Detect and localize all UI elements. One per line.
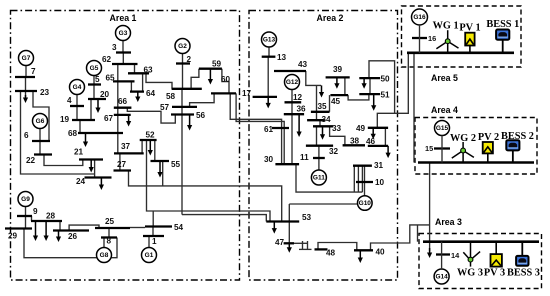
wire bus 31 tick a [353, 166, 355, 192]
load arrow bus 52 load [148, 140, 153, 156]
bus 19 [72, 119, 95, 121]
svg-text:17: 17 [242, 89, 252, 98]
wire spine bus 58 to junction 53 [181, 89, 183, 215]
bus 6 [32, 140, 50, 142]
svg-text:1: 1 [152, 237, 157, 246]
svg-text:G14: G14 [435, 274, 448, 281]
generator G9 [18, 192, 33, 207]
wire G14 stem [441, 242, 443, 269]
bus 61 [272, 127, 289, 129]
svg-text:BESS 3: BESS 3 [507, 268, 540, 279]
bus 27 [114, 169, 132, 171]
bus 13 [262, 56, 276, 58]
bus 49 [368, 127, 388, 129]
wire bus 23 to bus 24 long link [21, 91, 95, 174]
svg-text:59: 59 [212, 60, 222, 69]
bus 5 [88, 83, 101, 85]
bus 43 [274, 70, 306, 72]
bus 51 [359, 93, 380, 95]
wire bus 40 to Area 3 tie [371, 225, 430, 250]
bus 64 [130, 90, 144, 92]
bus 20 [88, 98, 106, 100]
svg-text:10: 10 [375, 178, 385, 187]
bus 63 [128, 72, 149, 74]
bus 3 [116, 51, 131, 53]
load arrow bus 28 load b [44, 221, 49, 241]
BESS unit BESS 3 [516, 242, 528, 266]
svg-text:15: 15 [425, 144, 433, 153]
bus 17 [253, 96, 277, 98]
bus 59 [199, 68, 222, 70]
bus 39 [326, 76, 350, 78]
generator G12 [285, 75, 300, 90]
svg-text:36: 36 [297, 105, 307, 114]
svg-text:45: 45 [331, 97, 341, 106]
generator G14 [434, 269, 449, 284]
wire G15 stem [441, 136, 443, 163]
svg-text:G13: G13 [263, 37, 276, 44]
svg-text:G9: G9 [21, 196, 30, 203]
bus 21 [79, 158, 103, 160]
wire bus 34 to bus 33 [319, 120, 321, 126]
load arrow bus 51 load [371, 94, 376, 111]
wire bus 49 to bus 46 [384, 128, 386, 146]
wire Area 4 to Area 3 tie [429, 163, 431, 252]
svg-text:40: 40 [376, 248, 386, 257]
bus 37 [114, 152, 144, 154]
wire bus 20 to bus 19 [90, 99, 92, 120]
wire bus 26 to bus 25 [69, 225, 99, 230]
bus 52 [140, 139, 157, 141]
wire bus 22 to bus 21 [44, 155, 83, 166]
load arrow bus 59 load [208, 69, 213, 85]
bus 29 [5, 227, 32, 229]
svg-text:43: 43 [298, 60, 308, 69]
area box Area 3 [419, 234, 542, 289]
generator G16 [412, 9, 428, 25]
wire G6 stem [39, 128, 41, 141]
svg-text:62: 62 [102, 55, 112, 64]
wire bus 52 to bus 55 tick [154, 140, 156, 161]
bus 16 [412, 37, 427, 39]
wire bus 3 to bus 62 [122, 53, 124, 65]
svg-text:Area 3: Area 3 [435, 217, 462, 227]
svg-text:57: 57 [160, 103, 170, 112]
wire bus 25 to bus 8 [108, 228, 110, 238]
Area 4 main bus [418, 161, 534, 164]
bus 2 [176, 62, 190, 64]
load arrow bus 26 load [56, 231, 61, 243]
PV unit PV 2 [483, 142, 493, 163]
Area 3 main bus [423, 240, 539, 243]
svg-text:61: 61 [264, 125, 274, 134]
svg-text:51: 51 [381, 91, 391, 100]
bus 26 [53, 229, 89, 231]
svg-text:54: 54 [174, 223, 184, 232]
wire bus 50 to bus 51 [369, 78, 371, 94]
wire bus 65 to bus 64 [130, 81, 132, 91]
bus 14 [436, 253, 450, 255]
wire bus 31 tick b [357, 166, 359, 192]
svg-text:46: 46 [366, 137, 376, 146]
svg-text:2: 2 [187, 55, 192, 64]
bus 11 [313, 157, 325, 159]
wind turbine WG 1 [436, 30, 458, 53]
wire stub bar between ticks and bus 48 [299, 248, 312, 250]
wire G7 stem to bus 7 [25, 65, 27, 77]
wire bus 21 to bus 24 [94, 160, 96, 178]
svg-text:G8: G8 [100, 252, 109, 259]
bus 58 [172, 88, 202, 90]
load arrow bus 68 load [83, 133, 88, 147]
generator G15 [435, 121, 450, 136]
load arrow bus 64 load [135, 92, 140, 102]
bus 57 [172, 106, 197, 108]
svg-text:G3: G3 [119, 30, 128, 37]
bus 22 [34, 153, 52, 155]
wire bus 23 to bus 6 [33, 91, 49, 141]
wire bus 52 to bus 37 tick [141, 140, 143, 153]
wire bus 31 to bus 10 to G10 [364, 166, 366, 196]
wire bus 33 to bus 38 [330, 126, 345, 145]
load arrow bus 33 load [320, 126, 325, 140]
svg-text:63: 63 [144, 66, 154, 75]
load arrow Area 3 tie load [427, 248, 432, 258]
wire G9 stem through bus 9 [25, 206, 27, 229]
wire G1 stem [148, 236, 150, 248]
bus 30 [275, 163, 299, 165]
svg-text:28: 28 [46, 212, 56, 221]
svg-text:14: 14 [451, 251, 460, 260]
load arrow bus 55 load [157, 161, 162, 178]
wire bus 52 to bus 53 link [147, 140, 271, 222]
bus 68 [78, 132, 123, 134]
svg-text:13: 13 [277, 53, 287, 62]
bus 9 [17, 215, 32, 217]
bus 55 [151, 160, 170, 162]
svg-text:35: 35 [318, 102, 328, 111]
bus 12 [285, 101, 302, 103]
bus 66 [114, 107, 132, 109]
bus 50 [359, 77, 380, 79]
svg-text:G16: G16 [413, 14, 426, 21]
wire bus 2 to bus 58 [182, 64, 184, 89]
wire bus 43 step to bus 35 [306, 71, 321, 85]
svg-text:25: 25 [105, 217, 115, 226]
svg-text:30: 30 [264, 155, 274, 164]
bus 32 [306, 145, 333, 147]
wire bus 7 to load below bus 23 [25, 77, 27, 98]
wire Area 5 to Area 4 tie [413, 53, 415, 163]
wire bus 31 tick c [361, 166, 363, 192]
wire junction to bus 53 lower link [182, 215, 266, 222]
wire bus 43 branch to bus 35 [316, 85, 318, 111]
wire bus 37 to bus 27 [119, 153, 121, 170]
wire bus 60 to bus 61 to bus 30 line a [230, 93, 281, 164]
svg-text:11: 11 [300, 153, 309, 162]
bus 48 [315, 248, 328, 250]
generator G8 [97, 248, 112, 263]
wire bus 54 riser [152, 211, 154, 227]
bus 45 [330, 94, 348, 96]
load arrow bus 20 load [95, 99, 100, 113]
load arrow bus 24 load [99, 178, 104, 191]
wire bus 35 to bus 34 [316, 112, 318, 120]
svg-text:21: 21 [74, 148, 84, 157]
bus 54 [145, 225, 172, 227]
load arrow bus 36 load [297, 114, 302, 137]
svg-text:22: 22 [26, 156, 36, 165]
wire bus 62 to bus 63 [134, 64, 136, 73]
generator G2 [175, 39, 190, 54]
wire bus 49 to Area 5 tie [377, 53, 408, 128]
svg-text:55: 55 [171, 160, 181, 169]
wire bus 45 to bus 35 [329, 95, 331, 112]
generator G5 [87, 61, 102, 76]
wire bus 9 to bus 28 [31, 216, 33, 221]
bus 35 [311, 111, 330, 113]
bus 60 [211, 92, 236, 94]
svg-text:34: 34 [322, 115, 332, 124]
load arrow bus 43 branch load [319, 85, 324, 97]
svg-text:68: 68 [68, 129, 78, 138]
load arrow bus 17 load [266, 98, 271, 108]
svg-text:58: 58 [166, 92, 176, 101]
svg-text:PV 3: PV 3 [484, 268, 505, 279]
BESS unit BESS 2 [506, 140, 519, 162]
wire bus 25 to bus 54 [130, 227, 145, 229]
wire bus 45 to bus 51 [348, 94, 369, 100]
bus 34 [307, 119, 325, 121]
area box Area 2 [249, 11, 398, 281]
svg-text:Area 4: Area 4 [431, 105, 458, 115]
svg-text:26: 26 [68, 232, 78, 241]
svg-text:G4: G4 [73, 84, 82, 91]
wire bus 55 down link [162, 161, 164, 186]
bus 38 [343, 144, 365, 146]
svg-text:24: 24 [76, 177, 86, 186]
bus 36 [284, 113, 304, 115]
bus 4 [70, 105, 84, 107]
wind turbine WG 2 [452, 142, 474, 163]
bus 8 [101, 236, 117, 238]
wire bus 54 to bus 1 [152, 227, 154, 237]
svg-text:64: 64 [146, 89, 156, 98]
PV unit PV 1 [465, 33, 474, 53]
svg-text:60: 60 [221, 75, 231, 84]
svg-text:50: 50 [381, 75, 391, 84]
svg-text:27: 27 [117, 160, 127, 169]
load arrow bus 49 load [371, 128, 376, 139]
wire G2 stem [182, 53, 184, 64]
bus 25 [95, 227, 130, 229]
wire bus 59 to bus 58 [191, 69, 199, 89]
svg-text:48: 48 [326, 249, 336, 258]
generator G6 [33, 114, 48, 129]
wire bus 57 to bus 60 [190, 93, 215, 107]
svg-text:29: 29 [8, 232, 18, 241]
svg-text:G1: G1 [145, 252, 154, 259]
wire bus 53 to G10 link [289, 203, 358, 205]
wire bus 5 to bus 20 [93, 85, 95, 100]
wire G16 stem [419, 25, 421, 53]
svg-text:38: 38 [350, 137, 360, 146]
bus 46 [368, 145, 388, 147]
svg-text:49: 49 [356, 124, 366, 133]
load arrow bus 53 load [272, 222, 277, 234]
wire bus 47 to bus 48 [294, 242, 308, 244]
svg-text:31: 31 [374, 161, 384, 170]
bus 31 [353, 165, 372, 167]
bus 15 [434, 147, 450, 149]
svg-text:65: 65 [106, 74, 116, 83]
svg-text:G15: G15 [436, 125, 449, 132]
area box Area 4 [415, 118, 537, 175]
wire bus 39 to bus 45 [344, 77, 346, 95]
wire bus 32 to bus 11 [318, 146, 320, 158]
generator G4 [70, 80, 85, 95]
load arrow bus 46 load [386, 146, 391, 158]
svg-text:66: 66 [118, 97, 128, 106]
svg-text:67: 67 [104, 114, 114, 123]
svg-text:9: 9 [33, 207, 38, 216]
generator G11 [311, 170, 326, 185]
svg-text:Area 5: Area 5 [431, 73, 458, 83]
svg-text:52: 52 [146, 131, 156, 140]
svg-text:WG 1: WG 1 [433, 21, 459, 32]
wire bus 63 to bus 58 [146, 73, 172, 89]
bus 56 [171, 113, 194, 115]
load arrow bus 50 load [362, 78, 367, 89]
wire bus 50 to Area 5 tie [369, 61, 395, 114]
svg-text:20: 20 [100, 90, 110, 99]
load arrow bus 39 load [334, 77, 339, 88]
wire spine bus 62 to bus 37 [117, 64, 119, 153]
wire G11 stem [318, 158, 320, 171]
bus 7 [15, 76, 35, 78]
wire bus 6 to bus 22 [39, 141, 41, 155]
load arrow bus 21 load [89, 160, 94, 173]
bus 10 [356, 181, 373, 183]
load arrow bus 47 load [287, 244, 292, 253]
wire parallel tick a between 47 and 48 [302, 241, 304, 249]
wire bus 30 to bus 31 lower link [296, 164, 362, 192]
svg-text:39: 39 [333, 65, 343, 74]
bus 67 [114, 114, 131, 116]
bus 40 [354, 249, 373, 251]
svg-text:32: 32 [329, 147, 339, 156]
svg-text:G7: G7 [22, 55, 31, 62]
wire G12 stem [291, 90, 293, 103]
svg-text:23: 23 [40, 88, 50, 97]
load arrow bus 28 load a [33, 221, 38, 241]
svg-text:33: 33 [332, 124, 342, 133]
wire bus 60 to bus 61 to bus 30 line b [236, 93, 284, 164]
svg-text:19: 19 [60, 115, 70, 124]
svg-text:G2: G2 [178, 43, 187, 50]
wire bus 53 riser to bus 47 load [288, 204, 290, 246]
svg-text:56: 56 [196, 111, 206, 120]
bus 47 [284, 242, 294, 244]
wire bus 28 to bus 26 [59, 221, 61, 231]
generator G3 [116, 26, 131, 41]
wire bus 63 to bus 64 [142, 73, 144, 91]
load arrow bus 23 load [23, 95, 28, 103]
svg-text:Area 1: Area 1 [110, 13, 137, 23]
wire G8 stem [103, 238, 105, 249]
wire G5 stem [93, 75, 95, 85]
load arrow bus 67 load [126, 115, 131, 127]
wire bus 66 to bus 56 [127, 108, 175, 123]
generator G7 [19, 51, 34, 66]
bus 24 [85, 176, 112, 178]
svg-text:6: 6 [24, 131, 29, 140]
wire G4 stem [76, 94, 78, 106]
svg-text:4: 4 [67, 96, 72, 105]
svg-text:Area 2: Area 2 [317, 13, 344, 23]
wire bus 19 to bus 68 [79, 120, 81, 133]
bus 65 [113, 80, 135, 82]
BESS unit BESS 1 [496, 30, 509, 53]
wire bus 48 to bus 40 [318, 243, 357, 251]
PV unit PV 3 [491, 242, 502, 267]
wire parallel tick b between 47 and 48 [307, 241, 309, 249]
wire G13 stem [268, 47, 270, 57]
wind turbine WG 3 [463, 242, 480, 267]
wire bus 12 to bus 36 [291, 102, 293, 114]
area box Area 5 [402, 6, 522, 67]
svg-text:37: 37 [121, 142, 131, 151]
wire bus 13 through bus 17 to load [267, 57, 269, 100]
load arrow bus 56 load [187, 115, 192, 131]
svg-text:3: 3 [112, 43, 117, 52]
generator G13 [262, 32, 277, 47]
bus 62 [112, 63, 138, 65]
wire tie drop into Area 3 bus [417, 225, 419, 242]
generator G1 [142, 248, 157, 263]
svg-text:G10: G10 [359, 200, 372, 207]
bus 53 [266, 220, 299, 222]
area box Area 1 [11, 11, 240, 281]
svg-text:G11: G11 [313, 175, 325, 182]
svg-text:5: 5 [95, 75, 100, 84]
svg-text:12: 12 [293, 93, 303, 102]
wire bus 36 to bus 30 [291, 114, 293, 164]
bus 28 [31, 220, 62, 222]
wire bus 4 to bus 19 [76, 106, 78, 120]
svg-text:G5: G5 [90, 65, 99, 72]
bus 1 [143, 235, 164, 237]
wire bus 29 bottom loop [24, 229, 117, 258]
svg-text:53: 53 [302, 213, 312, 222]
svg-text:8: 8 [107, 237, 112, 246]
wire bus 27 to bus 53 long link [129, 171, 282, 222]
bus 23 [15, 90, 37, 92]
Area 5 main bus [407, 51, 514, 54]
generator G10 [358, 196, 373, 211]
bus 33 [313, 125, 333, 127]
svg-text:7: 7 [31, 67, 36, 76]
wire G3 stem [122, 40, 124, 53]
svg-text:G12: G12 [286, 79, 299, 86]
load arrow bus 40 load [358, 250, 363, 263]
svg-text:WG 3: WG 3 [457, 268, 483, 279]
svg-text:G6: G6 [36, 118, 45, 125]
svg-text:47: 47 [275, 238, 285, 247]
wire bus 59 to bus 60 [222, 69, 229, 94]
svg-text:16: 16 [428, 34, 436, 43]
wire bus 33 to bus 32 [316, 126, 318, 145]
